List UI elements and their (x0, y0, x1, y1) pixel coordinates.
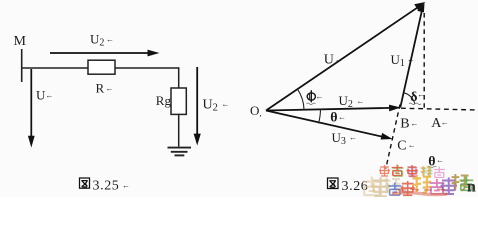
svg-text:←: ← (122, 181, 130, 190)
arrow U2 (right side, pointing down) (194, 67, 201, 146)
caption 图 3.26 : drawn 图 glyph (328, 178, 339, 189)
caption 图 3.25 : drawn 图 glyph (80, 178, 90, 188)
angle arc theta (between U2 and U3) (319, 109, 321, 124)
svg-text:←: ← (338, 113, 346, 122)
svg-text:R: R (96, 81, 105, 96)
svg-text:←: ← (436, 156, 444, 165)
svg-text:θ: θ (330, 110, 337, 125)
arrow U2 (top, pointing right) (50, 50, 160, 57)
angle arc phi (between U and U2) (298, 89, 305, 109)
arrow U (left, pointing down) (28, 69, 35, 148)
vector U2 (O to B) (266, 105, 401, 112)
svg-text:←: ← (316, 92, 324, 101)
svg-text:←: ← (357, 97, 365, 106)
watermark bottom red char (401, 181, 415, 195)
wire corner down to Rg (178, 67, 180, 88)
svg-text:M: M (14, 34, 27, 49)
svg-text:←: ← (407, 55, 415, 64)
svg-text:←: ← (411, 119, 419, 128)
watermark bottom blue char (389, 183, 402, 196)
wire Rg to ground (178, 114, 180, 146)
resistor R box (88, 60, 115, 74)
svg-text:←: ← (441, 118, 449, 127)
squiggle under delta (409, 103, 421, 105)
svg-text:Rg: Rg (156, 93, 172, 108)
terminal M vertical bar (21, 49, 23, 82)
svg-text:←: ← (335, 56, 342, 64)
watermark top small char 3 (red/purple halo) (407, 166, 418, 177)
dashed horizontal line (B-A to right edge) (401, 108, 477, 110)
svg-text:←: ← (106, 35, 114, 44)
ground (168, 148, 192, 156)
watermark top small char 2 (red/green halo) (393, 165, 404, 176)
svg-text:U: U (36, 88, 46, 103)
squiggle under phi (307, 103, 316, 105)
watermark bottom purple char (441, 178, 458, 195)
watermark top small char 5 (pink) (434, 167, 445, 178)
watermark bottom red band (392, 193, 447, 195)
svg-text:O: O (250, 103, 259, 118)
watermark bottom small red strokes (398, 189, 445, 190)
watermark top small char 4 (orange/green) (421, 166, 432, 177)
svg-text:←: ← (106, 84, 114, 93)
svg-text:←: ← (349, 133, 357, 142)
svg-text:←: ← (222, 100, 230, 109)
svg-text:n: n (467, 179, 476, 196)
resistor Rg box (171, 88, 186, 114)
watermark bottom orange/yellow big char (413, 175, 432, 193)
svg-text:C: C (397, 138, 406, 153)
vector U3 (O to C) (266, 111, 393, 140)
wire R to corner (115, 67, 179, 69)
svg-text:3.25: 3.25 (93, 179, 120, 194)
svg-text:←: ← (46, 91, 54, 100)
svg-text:←: ← (417, 90, 425, 99)
squiggle under lower theta (428, 166, 437, 168)
watermark bottom olive char (452, 174, 469, 190)
angle arc delta (at B between U1 and vertical) (404, 93, 415, 104)
vector U1 (B to top, shares tip with U) (400, 3, 424, 108)
dashed extension of U1 below B (through C) (386, 105, 400, 169)
watermark bottom magenta char (430, 179, 445, 194)
svg-text:←: ← (408, 141, 416, 150)
wire M to resistor R (21, 67, 89, 69)
watermark bottom row: pale tan big chars (363, 177, 382, 196)
dashed vertical line (from U tip down to A) (423, 13, 425, 109)
svg-text:,: , (260, 109, 262, 118)
svg-text:B: B (400, 117, 409, 132)
svg-text:U: U (324, 53, 334, 68)
watermark top small char 1 (red) (379, 165, 390, 176)
watermark bottom green char (460, 177, 474, 191)
vector U (O to top-right) (266, 2, 425, 111)
label phi (307, 90, 315, 102)
